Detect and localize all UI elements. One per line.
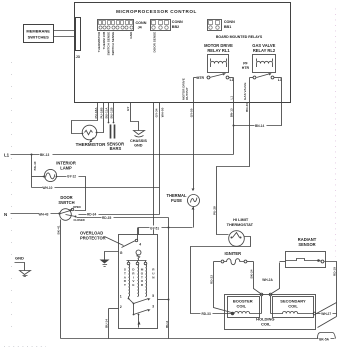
overload protector label bbox=[80, 231, 124, 246]
svg-text:BK-24: BK-24 bbox=[250, 269, 254, 278]
svg-text:RD-33: RD-33 bbox=[202, 312, 211, 316]
svg-text:BN-13: BN-13 bbox=[229, 108, 233, 117]
svg-text:MICROPROCESSOR CONTROL: MICROPROCESSOR CONTROL bbox=[116, 9, 197, 14]
svg-text:BK-13: BK-13 bbox=[40, 153, 49, 157]
wire BK-41 door switch to neutral bus bbox=[60, 220, 62, 339]
svg-text:CONN: CONN bbox=[172, 20, 183, 24]
svg-text:BU-14: BU-14 bbox=[105, 319, 109, 328]
svg-text:BU-6: BU-6 bbox=[165, 321, 169, 328]
svg-text:SENSOR: SENSOR bbox=[298, 242, 315, 247]
svg-text:WH-2A: WH-2A bbox=[262, 278, 273, 282]
svg-text:PROTECTOR: PROTECTOR bbox=[80, 236, 106, 241]
svg-text:THERMISTOR: THERMISTOR bbox=[97, 31, 101, 52]
svg-text:RD-35: RD-35 bbox=[102, 216, 111, 220]
svg-text:BB1: BB1 bbox=[224, 25, 231, 29]
svg-text:RD-19: RD-19 bbox=[332, 267, 336, 276]
thermal fuse F1 bbox=[166, 189, 199, 228]
wire BU-11B sensor bar right bbox=[113, 103, 115, 123]
wire RD-34 door sense bbox=[79, 212, 160, 217]
svg-text:THERMISTOR: THERMISTOR bbox=[76, 142, 106, 147]
svg-text:WH-50: WH-50 bbox=[160, 107, 164, 117]
ground legend GND bbox=[15, 255, 31, 276]
drive motor box M1 bbox=[119, 228, 158, 329]
svg-text:5: 5 bbox=[152, 294, 154, 298]
svg-text:IGNITER: IGNITER bbox=[224, 251, 241, 256]
svg-text:SWITCHES: SWITCHES bbox=[28, 34, 49, 39]
RL1 contacts MTR / L1 bbox=[194, 73, 234, 82]
microprocessor control box U1 bbox=[75, 3, 291, 103]
svg-text:GND: GND bbox=[15, 255, 24, 260]
wire door circuit down to motor term 5 and bus bbox=[168, 218, 170, 339]
secondary coil L2 bbox=[271, 312, 314, 314]
RL2 contacts PF HTR / L1 bbox=[242, 62, 282, 82]
interior lamp DS1 bbox=[32, 160, 76, 181]
svg-text:WH-10: WH-10 bbox=[43, 186, 53, 190]
wire GY to chassis ground bbox=[131, 103, 139, 131]
wire igniter right to holding coil left terminal bbox=[254, 262, 261, 294]
drive winding bbox=[138, 265, 139, 297]
igniter E1 bbox=[214, 251, 254, 265]
svg-text:L1: L1 bbox=[4, 153, 10, 158]
holding coil terminals and leads bbox=[260, 293, 272, 313]
svg-text:THERM 10B: THERM 10B bbox=[102, 31, 106, 49]
svg-text:BN-14: BN-14 bbox=[255, 124, 264, 128]
wire membrane to J3 lower bbox=[54, 36, 76, 38]
svg-text:OUTPUT: OUTPUT bbox=[185, 87, 189, 100]
svg-text:BU-11A: BU-11A bbox=[105, 107, 109, 119]
winding terminals bbox=[127, 262, 130, 265]
svg-text:BU-11B: BU-11B bbox=[110, 107, 114, 119]
run lead to box bottom with arrow bbox=[138, 315, 140, 328]
wire GY-34 to motor bbox=[153, 103, 155, 235]
svg-text:WH-43: WH-43 bbox=[39, 213, 49, 217]
svg-text:T: T bbox=[124, 283, 126, 287]
faint scan dotted line right margin bbox=[335, 9, 337, 257]
wire GY-12 lamp to door switch bbox=[57, 174, 86, 211]
svg-text:PU-18A: PU-18A bbox=[94, 107, 98, 119]
svg-text:GND: GND bbox=[129, 31, 133, 39]
svg-text:MTR: MTR bbox=[197, 76, 205, 80]
svg-text:RELAY RL2: RELAY RL2 bbox=[253, 48, 276, 53]
svg-text:RELAY RL1: RELAY RL1 bbox=[207, 48, 230, 53]
thermistor RT1 bbox=[76, 125, 106, 147]
wire BU-14 to bus bbox=[108, 309, 110, 339]
connector CONN BB1 bbox=[208, 20, 236, 31]
svg-text:OPEN: OPEN bbox=[73, 205, 81, 209]
svg-text:RD-23: RD-23 bbox=[210, 275, 214, 284]
wire RD-35 door switch closed bbox=[77, 216, 169, 221]
svg-text:THERMOSTAT: THERMOSTAT bbox=[227, 222, 254, 227]
svg-text:WH-27: WH-27 bbox=[321, 312, 331, 316]
svg-text:MEMBRANE: MEMBRANE bbox=[26, 28, 50, 33]
svg-text:LAMP: LAMP bbox=[60, 165, 72, 170]
wire hi-limit output hook to igniter circuit bbox=[191, 237, 251, 314]
svg-text:CONN: CONN bbox=[224, 20, 235, 24]
wire radiant sensor output down right side bbox=[325, 262, 337, 317]
wire RL2 HTR output down and to hi-limit bbox=[217, 78, 250, 235]
svg-text:L1: L1 bbox=[230, 96, 234, 100]
svg-text:BARS: BARS bbox=[110, 146, 122, 151]
relay RL2 gas valve bbox=[252, 43, 276, 73]
svg-text:GAS VALVE: GAS VALVE bbox=[243, 83, 247, 100]
booster coil L1 bbox=[231, 312, 262, 316]
wire WH-10 bbox=[32, 186, 160, 190]
svg-text:4: 4 bbox=[139, 242, 141, 246]
svg-text:COIL: COIL bbox=[288, 304, 298, 309]
wire motor terminal 2 bbox=[109, 308, 119, 310]
svg-text:COIL: COIL bbox=[261, 322, 271, 327]
wire PU-18A thermistor left bbox=[72, 103, 98, 134]
svg-text:CHASSIS: CHASSIS bbox=[130, 139, 147, 143]
svg-text:SWITCH SENSE: SWITCH SENSE bbox=[111, 32, 115, 56]
membrane switches S1 bbox=[24, 25, 54, 43]
svg-text:SWITCH SENSE: SWITCH SENSE bbox=[106, 32, 110, 56]
svg-text:BOARD MOUNTED RELAYS: BOARD MOUNTED RELAYS bbox=[216, 35, 263, 39]
wire igniter left to booster junction bbox=[214, 262, 232, 313]
start winding bbox=[129, 265, 130, 297]
overload protector element bbox=[122, 241, 136, 248]
wire PU-18B thermistor right bbox=[97, 103, 104, 133]
secondary coil output terminal bbox=[313, 312, 316, 315]
svg-text:GY-34: GY-34 bbox=[155, 108, 159, 117]
wire motor terminal 5 bbox=[158, 299, 169, 301]
faint scan dots left margin bbox=[11, 62, 13, 330]
wire radiant sensor to holding coil right terminal bbox=[272, 263, 280, 294]
wire BK-40 lamp feed bbox=[31, 155, 33, 188]
svg-text:FUSE: FUSE bbox=[171, 198, 182, 203]
neutral bus wire bbox=[61, 333, 336, 342]
svg-text:GND: GND bbox=[134, 144, 143, 148]
wire membrane to J3 upper bbox=[54, 30, 76, 32]
svg-text:GY-12: GY-12 bbox=[67, 175, 76, 179]
hi limit thermostat S3 bbox=[227, 217, 254, 246]
svg-text:PU-18B: PU-18B bbox=[99, 107, 103, 119]
ground symbol motor bbox=[100, 260, 110, 267]
motor contact arms bbox=[133, 303, 135, 305]
svg-text:SECONDARY: SECONDARY bbox=[280, 298, 306, 303]
wire RL1 L1 contact down to L1 bus bbox=[233, 78, 235, 155]
connector J3 bbox=[76, 18, 81, 60]
svg-text:HTR: HTR bbox=[242, 66, 250, 70]
label RD-55 bbox=[201, 312, 213, 316]
svg-text:BB2: BB2 bbox=[172, 25, 179, 29]
chassis ground symbol bbox=[130, 131, 147, 148]
wire radiant sensor left lead bbox=[280, 261, 286, 263]
svg-text:PU-28: PU-28 bbox=[212, 206, 216, 215]
svg-text:DOOR SENSE: DOOR SENSE bbox=[152, 32, 156, 53]
svg-text:BN-30: BN-30 bbox=[245, 103, 249, 112]
svg-text:RD-34: RD-34 bbox=[87, 213, 96, 217]
svg-text:BK-40: BK-40 bbox=[33, 161, 37, 170]
door switch S2 bbox=[58, 195, 84, 222]
svg-text:CONN: CONN bbox=[136, 21, 147, 25]
wire N WH-43 bbox=[11, 212, 59, 217]
relay RL1 motor drive bbox=[204, 43, 233, 73]
gas valve coil assembly box bbox=[225, 295, 316, 330]
svg-text:E: E bbox=[132, 283, 134, 287]
svg-text:SWITCH: SWITCH bbox=[58, 200, 74, 205]
wire BN-14 RL2 to RL1 L1 bbox=[233, 78, 282, 128]
radiant sensor box bbox=[286, 237, 326, 267]
svg-text:2: 2 bbox=[120, 305, 122, 309]
svg-text:1: 1 bbox=[120, 294, 122, 298]
connector CONN BB2 bbox=[151, 20, 183, 31]
svg-text:J3: J3 bbox=[76, 55, 80, 59]
wire secondary coil output WH-27 bbox=[316, 312, 337, 316]
wire GY-51 fuse to motor terminal 4 bbox=[139, 226, 193, 235]
svg-text:G: G bbox=[120, 251, 123, 255]
connector CONN J4 bbox=[98, 20, 147, 31]
wire diagonal to coil box corner bbox=[318, 317, 337, 328]
svg-text:CLOSED: CLOSED bbox=[74, 218, 85, 222]
wire RL1 MTR output down to thermal fuse bbox=[193, 78, 195, 189]
svg-text:COIL: COIL bbox=[237, 303, 247, 308]
svg-text:GY-50: GY-50 bbox=[189, 108, 193, 117]
sensor bars bbox=[107, 122, 124, 152]
svg-text:BK-5A: BK-5A bbox=[319, 337, 329, 341]
wire WH-50 door sense up to control bbox=[159, 103, 161, 215]
svg-text:3: 3 bbox=[152, 305, 154, 309]
wire BU-11A sensor bar left bbox=[108, 103, 110, 123]
motor winding bbox=[146, 265, 147, 297]
motor ground wire bbox=[105, 252, 119, 260]
svg-text:N: N bbox=[4, 212, 7, 217]
wire diagonal to secondary coil output bbox=[317, 303, 337, 314]
svg-text:BK-41: BK-41 bbox=[56, 225, 60, 234]
svg-text:GY-51: GY-51 bbox=[150, 227, 159, 231]
wire L1 main BK-13 bbox=[11, 153, 234, 158]
